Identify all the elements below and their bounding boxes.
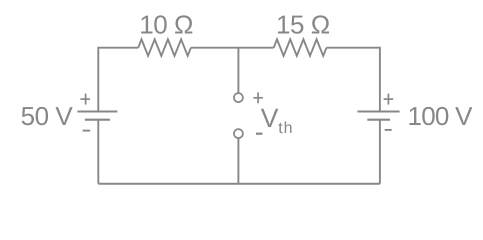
svg-text:100 V: 100 V bbox=[408, 101, 474, 131]
svg-text:th: th bbox=[278, 120, 293, 137]
svg-text:V: V bbox=[261, 103, 279, 133]
svg-text:10 Ω: 10 Ω bbox=[139, 9, 193, 39]
svg-text:15 Ω: 15 Ω bbox=[276, 9, 330, 39]
svg-text:50 V: 50 V bbox=[21, 101, 74, 131]
